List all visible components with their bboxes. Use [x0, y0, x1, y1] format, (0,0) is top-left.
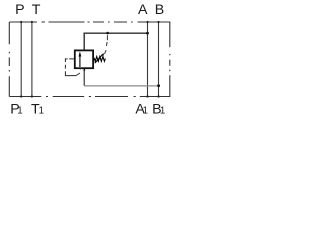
svg-text:1: 1: [17, 106, 22, 117]
svg-text:T: T: [32, 2, 41, 18]
svg-text:P: P: [15, 2, 24, 18]
svg-text:1: 1: [160, 106, 165, 117]
svg-text:B: B: [155, 2, 164, 18]
svg-text:1: 1: [143, 106, 148, 117]
svg-text:A: A: [138, 2, 148, 18]
svg-text:1: 1: [39, 106, 44, 117]
